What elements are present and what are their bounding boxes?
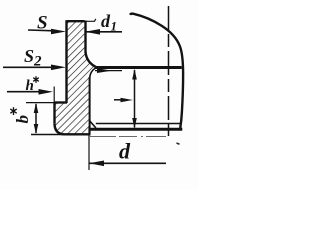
node: height bottom arrowhead — [132, 118, 137, 128]
node: S arrowhead — [51, 29, 66, 35]
svg-text:b: b — [13, 115, 32, 124]
node: b bottom arrowhead — [34, 124, 39, 134]
wire: faint lower line — [90, 135, 166, 137]
wire: bottom thick line — [90, 128, 183, 131]
wire: top rim thin extension with hook — [84, 19, 96, 21]
section body (glass cross-section, hatched) — [55, 21, 97, 134]
wire: inner thin line — [96, 123, 181, 125]
wire: bead edge extension line — [53, 87, 55, 103]
node: d1 arrowhead — [85, 29, 100, 35]
label b* (rotated) — [10, 107, 16, 115]
wire: wall left edge — [65, 20, 67, 103]
wire: under-fillet return — [90, 68, 96, 78]
wire: d dimension line — [89, 162, 166, 164]
node: b top arrowhead — [34, 103, 39, 113]
wire: leader to height dimension — [114, 99, 125, 101]
node: ledge under-arrow — [95, 70, 122, 72]
node: h arrowhead — [39, 89, 54, 95]
svg-text:d: d — [101, 11, 111, 31]
wire: chamfer to inner line — [90, 121, 96, 128]
node: d arrowhead — [89, 161, 104, 167]
wire: bead bottom thin extension — [31, 134, 64, 136]
wire: fillet to ledge — [86, 52, 97, 67]
wire: ledge top surface (thick) — [96, 66, 182, 69]
wire: d extension line — [88, 127, 90, 171]
wire: bead shoulder thin extension — [26, 102, 55, 104]
wire: bead bottom round corner — [55, 124, 64, 135]
svg-text:d: d — [119, 139, 131, 164]
node: centerline (dashed) — [168, 6, 170, 136]
wire: d1 dimension line — [85, 31, 122, 33]
node: leader arrowhead — [121, 98, 134, 102]
wire: top rim line — [67, 20, 85, 22]
wire: bead bottom line — [64, 133, 91, 135]
node: height top arrowhead — [132, 69, 137, 80]
node: stray mark — [177, 143, 180, 144]
wire: body outline curve — [130, 14, 183, 129]
wire: b dimension line — [35, 104, 37, 133]
wire: h dimension line — [7, 91, 46, 93]
wire: height dimension line (right) — [134, 70, 136, 128]
svg-text:S: S — [24, 46, 34, 66]
wire: S2 dimension line — [3, 66, 54, 68]
wire: bead left edge — [53, 102, 55, 124]
node: S2 arrowhead — [51, 65, 66, 71]
wire: bead shoulder — [55, 101, 68, 103]
wire: bead right edge — [89, 77, 91, 134]
wire: S dimension line — [28, 29, 54, 32]
wire: wall right edge — [84, 21, 86, 53]
